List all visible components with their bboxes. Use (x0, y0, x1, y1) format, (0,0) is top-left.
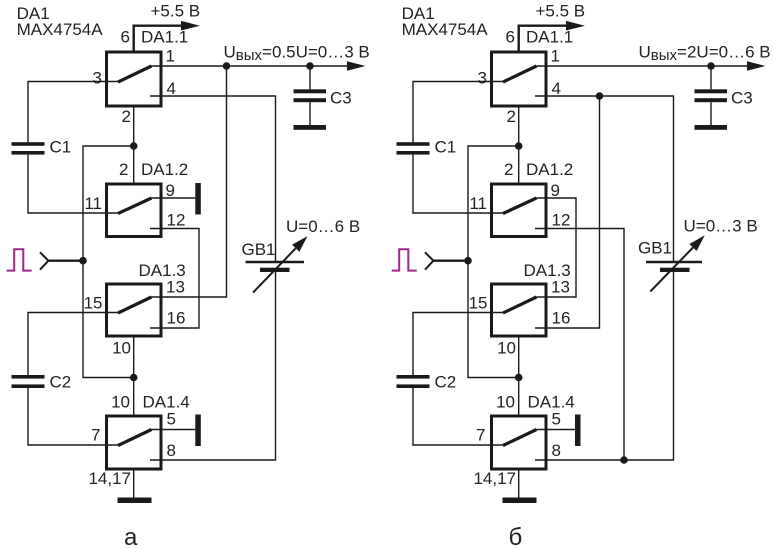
svg-text:DA1.3: DA1.3 (524, 261, 571, 280)
svg-text:3: 3 (93, 69, 102, 88)
svg-text:7: 7 (476, 426, 485, 445)
output arrowhead right (747, 61, 766, 71)
svg-text:10: 10 (496, 393, 515, 412)
switch DA1.1 (107, 52, 162, 106)
svg-text:12: 12 (552, 211, 571, 230)
svg-text:U=0…6 В: U=0…6 В (286, 217, 360, 236)
svg-text:1: 1 (551, 47, 560, 66)
svg-text:C1: C1 (435, 138, 457, 157)
svg-text:10: 10 (497, 339, 516, 358)
node above C3 right (707, 62, 715, 70)
svg-text:2: 2 (504, 160, 513, 179)
svg-text:MAX4754A: MAX4754A (402, 20, 489, 39)
power arrowhead right (566, 21, 585, 31)
terminator bar pin 5 right (575, 415, 581, 447)
output wire pin 1 right (537, 65, 748, 67)
svg-text:4: 4 (167, 79, 176, 98)
svg-text:DA1.1: DA1.1 (141, 28, 188, 47)
wire pin 4 to battery top right (535, 96, 674, 261)
svg-text:8: 8 (552, 441, 561, 460)
wire pins 14,17 to ground right (518, 471, 520, 498)
node pin 10 right (515, 374, 523, 382)
pulse source symbol (7, 249, 32, 270)
capacitor C1 right (397, 142, 430, 154)
power rail +5.5V wire (134, 26, 182, 51)
svg-text:GB1: GB1 (242, 240, 276, 259)
svg-text:DA1.3: DA1.3 (139, 261, 186, 280)
switch DA1.3 right (492, 284, 547, 336)
svg-text:4: 4 (552, 79, 561, 98)
battery GB1 (246, 262, 305, 272)
svg-text:5: 5 (552, 410, 561, 429)
capacitor C3 (294, 66, 327, 125)
svg-text:GB1: GB1 (638, 239, 672, 258)
svg-text:б: б (509, 524, 523, 549)
node pin 10 (130, 374, 138, 382)
input terminal fork right (425, 252, 433, 269)
svg-text:2: 2 (119, 160, 128, 179)
wire pin 10 to pin 10 (133, 338, 135, 415)
svg-text:10: 10 (111, 393, 130, 412)
svg-text:12: 12 (167, 211, 186, 230)
wire C1 to pin 11 right (413, 155, 503, 213)
svg-text:8: 8 (167, 441, 176, 460)
input wire right (433, 260, 468, 262)
capacitor C2 (12, 375, 45, 388)
ground symbol right (503, 498, 537, 504)
wire battery to pin 8 right (535, 272, 674, 460)
svg-text:6: 6 (121, 28, 130, 47)
svg-text:DA1.2: DA1.2 (141, 160, 188, 179)
switch DA1.1 right (492, 52, 547, 106)
wire C2 to pin 7 (28, 388, 118, 445)
power rail +5.5V wire right (519, 26, 567, 51)
svg-text:7: 7 (91, 426, 100, 445)
wire pin 2 to pin 2 (133, 108, 135, 183)
svg-text:14,17: 14,17 (88, 469, 131, 488)
svg-text:3: 3 (478, 69, 487, 88)
svg-text:1: 1 (166, 47, 175, 66)
wire pin 9 to pin 13 (537, 198, 577, 297)
svg-text:MAX4754A: MAX4754A (17, 20, 104, 39)
svg-text:11: 11 (469, 194, 487, 213)
bypass wire node to input to pin10 node (83, 146, 134, 378)
svg-text:13: 13 (166, 278, 185, 297)
capacitor C2 right (397, 375, 430, 388)
wire pin 10 to pin 10 right (518, 338, 520, 415)
svg-text:9: 9 (166, 181, 175, 200)
IC designator DA1 MAX4754A right (402, 4, 489, 39)
ground symbol (118, 498, 152, 504)
input node (79, 257, 87, 265)
svg-text:11: 11 (84, 194, 102, 213)
terminator bar pin 5 (195, 415, 201, 447)
svg-text:5: 5 (167, 410, 176, 429)
pulse source symbol right (392, 249, 417, 270)
node pin8-pin12 (620, 456, 628, 464)
node above C3 (306, 62, 314, 70)
IC designator DA1 MAX4754A (17, 4, 104, 39)
switch DA1.3 (107, 284, 162, 336)
switch DA1.4 (107, 416, 162, 469)
capacitor C3 right (695, 66, 728, 125)
node pin2 branch right (515, 142, 523, 150)
capacitor C1 (12, 142, 45, 154)
input node right (464, 257, 472, 265)
input wire (48, 260, 83, 262)
wire pin 3 to C1 (28, 82, 118, 143)
svg-text:10: 10 (112, 339, 131, 358)
battery GB1 right (646, 262, 702, 272)
wire pin 15 to C2 right (413, 313, 503, 376)
svg-text:2: 2 (507, 107, 516, 126)
output wire pin 1 (152, 65, 348, 67)
svg-text:C2: C2 (435, 373, 457, 392)
switch DA1.2 right (492, 184, 547, 237)
svg-text:C3: C3 (731, 89, 753, 108)
wire pin 4 to battery top (150, 96, 276, 261)
wire output node to pin 13 (152, 66, 227, 297)
wire pin 5 to terminator right (537, 429, 576, 431)
node on pin 4 wire (596, 92, 604, 100)
svg-text:C2: C2 (50, 373, 72, 392)
svg-text:DA1.1: DA1.1 (526, 28, 573, 47)
wire pin 3 to C1 right (413, 82, 503, 143)
wire pin 5 to terminator (152, 429, 196, 431)
ground under C3 right (695, 125, 728, 130)
wire pin 15 to C2 (28, 313, 118, 376)
svg-text:+5.5 В: +5.5 В (151, 2, 201, 21)
svg-text:6: 6 (506, 28, 515, 47)
battery adjust arrow (253, 248, 296, 292)
switch DA1.4 right (492, 416, 547, 469)
svg-text:+5.5 В: +5.5 В (536, 2, 586, 21)
power arrowhead (181, 21, 200, 31)
input terminal fork (40, 252, 48, 269)
node pin2 branch (130, 142, 138, 150)
wire C1 to pin 11 (28, 155, 118, 213)
wire pins 14,17 to ground (133, 471, 135, 498)
wire battery to pin 8 (150, 272, 276, 460)
wire pin 12 down to pin8 node (535, 229, 624, 461)
svg-text:2: 2 (122, 107, 131, 126)
svg-text:C1: C1 (50, 138, 72, 157)
wire pin 9 to terminator (152, 197, 196, 199)
svg-text:Uвых=2U=0…6 В: Uвых=2U=0…6 В (639, 43, 771, 65)
battery adjust arrow right (650, 248, 693, 292)
ground under C3 (294, 125, 327, 130)
svg-text:9: 9 (551, 181, 560, 200)
svg-text:15: 15 (469, 294, 488, 313)
wire pin4 node to pin 16 (535, 96, 600, 328)
svg-text:15: 15 (84, 294, 103, 313)
output arrowhead (347, 61, 366, 71)
svg-text:Uвых=0.5U=0…3 В: Uвых=0.5U=0…3 В (224, 43, 370, 65)
node on output wire (223, 62, 231, 70)
svg-text:16: 16 (552, 309, 571, 328)
svg-text:16: 16 (167, 309, 186, 328)
svg-text:U=0…3 В: U=0…3 В (684, 217, 758, 236)
svg-text:13: 13 (551, 278, 570, 297)
svg-text:C3: C3 (330, 89, 352, 108)
terminator bar pin 9 (195, 183, 201, 215)
switch DA1.2 (107, 184, 162, 237)
bypass wire right (468, 146, 519, 378)
wire pin 2 to pin 2 right (518, 108, 520, 183)
svg-text:а: а (124, 524, 138, 549)
svg-text:DA1.2: DA1.2 (526, 160, 573, 179)
wire C2 to pin 7 right (413, 388, 503, 445)
svg-text:14,17: 14,17 (473, 469, 516, 488)
wire pin 12 to pin 16 (150, 229, 199, 329)
